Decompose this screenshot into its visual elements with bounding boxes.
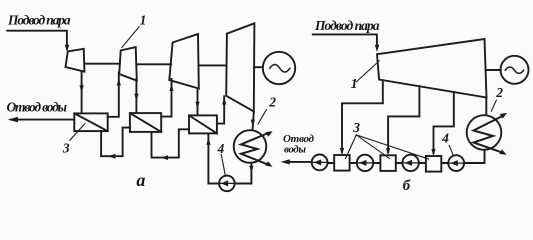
arrowhead: steam inlet down (diagram a)	[65, 45, 69, 52]
arrowhead: H3-H2 flow left	[161, 155, 169, 160]
svg-text:4: 4	[217, 141, 225, 156]
svg-text:2: 2	[495, 85, 503, 100]
condenser K1 (diagram a)	[234, 130, 267, 163]
svg-text:Подвод пара: Подвод пара	[7, 12, 71, 27]
wire: H3 right stub riser to T4	[217, 96, 224, 123]
condenser K1 cooling zigzag	[241, 133, 270, 166]
arrowhead: extraction T2 down	[134, 94, 138, 101]
arrowhead: riser into T4 up	[222, 97, 226, 104]
generator G2 sine symbol	[505, 67, 523, 73]
pump P4 (б)	[402, 155, 418, 171]
wire: exhaust T4 to condenser	[253, 112, 254, 130]
svg-text:а: а	[136, 170, 145, 190]
arrowhead: cooling water out SE (б)	[499, 149, 506, 155]
arrowhead: condensate down from condenser	[249, 166, 253, 173]
arrowhead: extraction 3 down	[431, 149, 435, 156]
svg-text:1: 1	[351, 76, 358, 91]
condenser K2 cooling zigzag	[474, 116, 504, 154]
heater H3 diagonal	[189, 115, 217, 133]
arrowhead: cooling water out NE	[265, 131, 272, 137]
wire: shaft T3-T4	[199, 64, 227, 66]
wire: shaft T1-T2	[84, 63, 120, 65]
wire: extraction T2 to heater H2	[135, 79, 137, 113]
wire: extraction T1 to heater H1	[81, 71, 83, 113]
wire: feedwater outlet (diagram a)	[11, 119, 74, 121]
svg-text:Отвод воды: Отвод воды	[7, 100, 68, 115]
generator G1 (diagram a)	[263, 52, 295, 84]
svg-text:4: 4	[441, 131, 449, 146]
wire: steam inlet line (diagram a)	[7, 31, 67, 49]
heater H2 (diagram a)	[130, 113, 161, 132]
wire: H1 right stub riser to T2	[108, 73, 119, 117]
arrowhead: feedwater out left (б)	[281, 159, 290, 164]
wire: outlet arrow line (б)	[285, 161, 312, 163]
svg-text:воды: воды	[284, 143, 306, 155]
heater H1 (diagram a)	[74, 113, 107, 131]
arrowhead: cooling water out SE	[265, 161, 272, 167]
arrowhead: feedwater out left	[8, 117, 18, 123]
condenser K2 (diagram б)	[467, 115, 502, 150]
wire: shaft T4-generator	[254, 66, 263, 68]
arrowhead: extraction 1 down	[340, 148, 344, 155]
svg-text:б: б	[403, 178, 411, 194]
wire: extraction 2 (б) staircase to square S2	[388, 86, 419, 152]
svg-text:3: 3	[352, 120, 360, 135]
pump P3 (б)	[357, 155, 373, 171]
arrowhead: riser into T3 up	[169, 84, 173, 91]
arrowhead: H2-H1 flow left	[108, 154, 116, 159]
pump P1 (diagram a)	[219, 176, 235, 192]
mixing heater square S1 (б)	[334, 155, 349, 171]
pump P2 (б)	[312, 155, 328, 171]
wire: drain H3 to H2	[152, 129, 190, 157]
arrowhead: extraction 2 down	[386, 148, 390, 155]
svg-text:2: 2	[268, 94, 276, 109]
wire: extraction 1 (б) staircase to square S1	[342, 81, 383, 152]
wire: extraction T3 to heater H3	[197, 89, 199, 116]
wire: exhaust turbine to condenser (б)	[485, 98, 487, 116]
wire: condensate condenser to pump line	[208, 133, 251, 183]
wire: extraction 3 (б) staircase to square S3	[434, 92, 454, 153]
generator G1 sine symbol	[270, 65, 290, 73]
pump P5 (б)	[448, 155, 464, 171]
svg-text:3: 3	[62, 141, 70, 156]
turbine stage T1 (diagram a)	[66, 49, 85, 72]
mixing heater square S3 (б)	[426, 156, 441, 172]
arrowhead: cooling water out NE (б)	[500, 113, 507, 119]
wire: drain H2 to H1	[101, 128, 130, 157]
generator G2 (diagram б)	[501, 56, 529, 84]
arrowhead: steam inlet down (diagram б)	[375, 45, 379, 52]
svg-text:1: 1	[140, 13, 147, 28]
arrowhead: extraction T1 down	[80, 85, 84, 92]
turbine T5 (diagram б)	[377, 39, 487, 98]
wire: steam inlet line (diagram б)	[313, 34, 377, 48]
turbine stage T4 (diagram a)	[226, 23, 254, 111]
heater H1 diagonal	[74, 113, 107, 131]
turbine stage T3 (diagram a)	[169, 34, 199, 89]
arrowhead: condensate riser up into H3	[206, 138, 210, 145]
wire: condensate chain line (б)	[312, 150, 485, 163]
pump P1 arrow	[221, 180, 229, 186]
arrowhead: riser into T2 up	[117, 78, 121, 85]
wire: shaft turbine-generator (б)	[486, 69, 501, 71]
wire: shaft T2-T3	[137, 63, 171, 65]
heater H2 diagonal	[130, 113, 161, 132]
mixing heater square S2 (б)	[380, 155, 395, 171]
heater H3 (diagram a)	[189, 115, 217, 133]
wire: H2 right stub riser to T3	[161, 79, 171, 117]
svg-text:Подвод пара: Подвод пара	[314, 18, 380, 33]
arrowhead: extraction T3 down	[195, 102, 199, 109]
arrowhead: exhaust down into condenser	[251, 120, 255, 127]
turbine stage T2 (diagram a)	[119, 47, 137, 81]
